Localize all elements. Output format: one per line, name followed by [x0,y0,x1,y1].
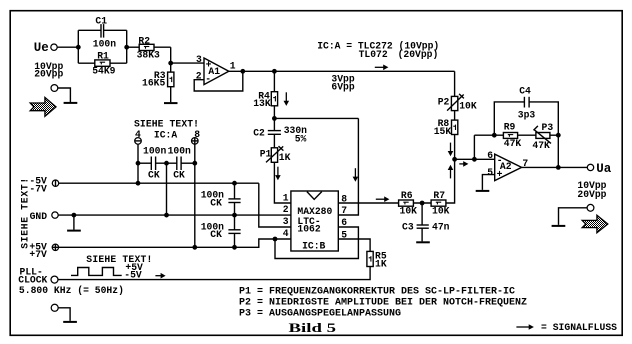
potentiometer P1 [260,146,291,163]
svg-text:GND: GND [30,211,48,222]
capacitor C4 [518,85,536,120]
wire node to A2 pin6 [474,158,494,160]
svg-text:10K: 10K [400,206,418,217]
ground clock probe [63,321,77,323]
ground input probe [64,102,78,104]
wire clock line to R5 [58,267,370,280]
node V+ leg / cap row junction [192,161,197,166]
legend signal flow arrow [516,324,534,330]
label = SIGNALFLUSS [541,322,617,333]
svg-text:A2: A2 [500,161,512,172]
svg-text:IC:A: IC:A [154,130,177,141]
label GND [30,211,48,222]
node R4/C2 junction [272,116,277,121]
node C1/R1 right junction [124,45,129,50]
wire feedback right leg down to output [557,135,559,167]
svg-text:Ua: Ua [596,162,612,176]
node clock probe terminal [51,304,70,321]
label -5V/-7V [29,176,47,195]
label PLL-CLOCK [18,266,47,285]
svg-text:15K: 15K [434,126,452,137]
node Ue input terminal [34,41,57,55]
svg-text:1: 1 [230,60,236,71]
wire C1 top branch [78,29,126,31]
resistor R3 [142,63,174,88]
resistor R7 [431,190,450,217]
wire node to A1 pin3 [171,62,204,64]
svg-text:C3: C3 [402,221,414,232]
clock square wave symbol [71,268,122,276]
svg-text:5.800 KHz (= 50Hz): 5.800 KHz (= 50Hz) [19,285,124,296]
wire A1 output junction down to R4 [273,71,275,91]
wire R7 up to A2 node [446,159,455,203]
ground output probe [552,225,566,227]
wire GND rail to MAX280 pin2 [58,214,291,216]
svg-text:6Vpp: 6Vpp [331,81,354,92]
terminal IC:A V- (circle with bar) [135,138,142,145]
svg-text:CK: CK [173,170,185,181]
svg-text:3: 3 [196,54,202,65]
ground A2 pin5 [476,190,490,192]
pin 8 label [341,193,347,204]
svg-text:+7V: +7V [29,249,47,260]
label IC:A type note [317,41,439,61]
label clock levels +5V/-5V [124,262,143,281]
potentiometer P3 [532,122,553,151]
signal flow output arrow (hatched) [582,215,608,233]
op-amp A2 [487,150,528,181]
svg-text:A1: A1 [208,66,220,77]
wire R4 to C2 node [273,106,275,131]
svg-text:16K5: 16K5 [142,77,165,88]
svg-text:54K9: 54K9 [92,66,115,77]
wire P1 to MAX280 pin1 [274,162,291,203]
svg-text:-7V: -7V [29,183,47,194]
capacitor C2 [253,125,307,144]
wire -5V rail [59,182,259,184]
wire A2 node to feedback node [455,158,475,160]
label SIEHE TEXT! (IC:A supply) [134,118,199,129]
svg-text:6: 6 [487,150,493,161]
signal flow input arrow (hatched) [30,97,56,116]
node GND rail / middle leg junction [164,213,169,218]
svg-text:38K3: 38K3 [137,50,160,61]
capacitor C1 [93,16,116,50]
label IC:A pin 8 [194,129,200,140]
potentiometer P2 [438,94,477,112]
svg-text:R7: R7 [433,190,445,201]
svg-text:TL072: TL072 [359,49,388,60]
label 100n CK (lower bypass) [201,221,224,240]
svg-text:20Vpp: 20Vpp [577,189,606,200]
svg-text:P3 = AUSGANGSPEGELANPASSUNG: P3 = AUSGANGSPEGELANPASSUNG [239,308,401,319]
ground below C3 [416,241,430,243]
node R4 branch junction [272,69,277,74]
wire A2 pin5 to ground [482,175,494,190]
node -5V rail / bypass column junction [232,181,237,186]
capacitor bypass upper (100n CK) [228,183,240,230]
node MAX280 pin4 junction [273,237,278,242]
svg-text:Ue: Ue [34,41,49,55]
svg-text:1K: 1K [279,152,291,163]
wire P2 to R8 [454,111,456,121]
svg-text:= SIGNALFLUSS: = SIGNALFLUSS [541,322,617,333]
node -5V rail / V- leg junction [136,181,141,186]
svg-text:5: 5 [487,167,493,178]
svg-text:47K: 47K [504,138,522,149]
wire R9/P3 feedback line [474,134,558,136]
label +5V/+7V [29,241,47,260]
wire middle leg to GND rail [166,163,168,215]
node input junction [76,45,81,50]
wire R2 to A1 input node [154,47,171,63]
terminal IC:A V+ (circle with cross) [192,138,199,145]
svg-text:3: 3 [283,216,289,227]
capacitor IC:A bypass left (100n CK) [138,157,160,181]
svg-text:CK: CK [148,170,160,181]
pin 3 label [283,216,289,227]
wire IC:A V- leg down to -5V rail [137,144,139,183]
pin 5 label [341,230,347,241]
wire pin4 node to pin6 detour [275,227,358,259]
svg-text:C4: C4 [519,85,531,96]
svg-text:100n: 100n [143,146,166,157]
terminal PLL clock [51,276,58,283]
wire C1/R1 right leg [126,30,128,63]
label output level 10Vpp/20Vpp [577,180,606,200]
wire A2 output to Ua [522,166,588,168]
node input probe terminal [51,85,70,102]
wire R4 node to MAX280 pin7 column [274,117,358,119]
svg-text:P2 = NIEDRIGSTE AMPLITUDE BEI: P2 = NIEDRIGSTE AMPLITUDE BEI DER NOTCH-… [239,297,527,308]
label SIEHE TEXT! (left vertical) [20,178,31,249]
wire feedback node up to R9 line [473,135,475,159]
svg-text:R2: R2 [138,35,150,46]
wire A1 feedback pin2 loop [194,71,243,91]
node V- leg / cap row junction [136,161,141,166]
node C4 branch left junction [492,133,497,138]
wire Ue to node [57,46,78,48]
node output probe terminal [559,204,594,224]
node GND rail / bypass column junction [232,213,237,218]
resistor R4 [253,91,277,109]
capacitor IC:A bypass right (100n CK) [173,157,195,181]
svg-text:SIEHE TEXT!: SIEHE TEXT! [134,118,199,129]
pin 1 label [283,192,289,203]
wire MAX280 pin7 column down [338,118,358,215]
label 100n 100n (IC:A caps) [143,146,191,157]
label IC:A pin 4 [135,129,141,140]
svg-text:4: 4 [283,228,289,239]
svg-text:IC:B: IC:B [302,241,325,252]
wire cap row middle [156,162,177,164]
signal flow down arrow beside R4 [284,92,290,106]
terminal +5V rail (circle with cross) [52,244,59,251]
wire A1 output corner down to P2 [454,71,456,96]
label input level 10Vpp/20Vpp [34,61,63,80]
node A2 inverting input junction [472,157,477,162]
ground below R3 [164,87,178,103]
signal flow down arrow on pin7 column [353,168,359,182]
resistor R2 [127,35,160,60]
signal flow arrow on clock line [155,273,165,279]
label 3Vpp/6Vpp [331,74,354,93]
svg-text:P3: P3 [542,122,554,133]
label clock frequency [19,285,124,296]
signal flow arrow on A1 output wire [375,65,389,71]
resistor R1 [78,51,126,77]
wire R5 to MAX280 pin5 [338,239,370,251]
wire C2 to P1 [273,134,275,148]
svg-text:13K: 13K [253,98,271,109]
wire C4 loop [494,102,558,135]
node +5V rail / V+ leg junction [192,245,197,250]
node C3 junction [420,201,425,206]
label Bild 5 title [289,320,337,335]
wire R8 down to A2 node [454,135,456,160]
wire -5V rail down to MAX280 pin3 [259,183,291,227]
svg-text:CLOCK: CLOCK [18,274,47,285]
op-amp A1 [196,54,236,85]
capacitor bypass lower (100n CK) [228,230,240,248]
wire MAX280 pin8 output to R6 [338,202,398,204]
resistor R8 [434,118,458,137]
terminal -5V rail (circle with vertical bar) [52,180,58,186]
svg-text:47K: 47K [532,140,550,151]
node A2 summing junction [452,157,457,162]
signal flow arrow on pin8 wire [376,196,390,202]
node C4 branch right junction [556,133,561,138]
pin 4 label [283,228,289,239]
node Ua output terminal [587,162,611,176]
pin 7 label [341,205,347,216]
node cap row middle junction [164,161,169,166]
svg-text:C2: C2 [253,127,265,138]
wire IC:A V+ leg down to +5V rail [194,144,196,247]
svg-text:100n: 100n [168,146,191,157]
svg-text:100n: 100n [93,39,116,50]
terminal GND rail [52,212,58,218]
node A1 feedback junction [240,69,245,74]
wire A1 output [229,70,455,72]
svg-text:R9: R9 [504,122,516,133]
svg-text:1062: 1062 [297,224,320,235]
svg-text:R1: R1 [97,51,109,62]
svg-text:10K: 10K [459,101,477,112]
svg-text:CK: CK [210,229,222,240]
svg-text:Bild 5: Bild 5 [289,320,337,335]
svg-text:-5V: -5V [124,270,142,281]
svg-text:P1: P1 [260,148,272,159]
label P1/P2/P3 notes [239,286,527,319]
node GND stub junction [72,213,77,218]
wire C1/R1 left leg [77,30,79,63]
wire R6 to R7 [413,202,431,204]
capacitor C3 [402,203,450,241]
svg-text:P1 = FREQUENZGANGKORREKTUR DES: P1 = FREQUENZGANGKORREKTUR DES SC-LP-FIL… [239,286,515,297]
svg-text:10K: 10K [432,206,450,217]
label IC:A [154,130,177,141]
signal flow down arrow below R8 [448,143,454,157]
label SIEHE TEXT! (clock) [86,254,152,265]
svg-text:P2: P2 [438,97,450,108]
svg-text:20Vpp: 20Vpp [34,69,63,80]
resistor R6 [399,190,418,217]
svg-text:(20Vpp): (20Vpp) [398,49,439,60]
svg-text:1K: 1K [375,258,387,269]
svg-text:7: 7 [341,205,347,216]
ground GND rail symbol [67,215,81,231]
IC U1 MAX280 / LTC-1062 IC:B [291,191,338,252]
svg-text:5%: 5% [295,134,307,145]
svg-text:CK: CK [210,197,222,208]
svg-text:47n: 47n [432,221,450,232]
resistor R9 [503,122,521,150]
wire +5V rail to MAX280 pin4 [59,239,291,247]
svg-text:C1: C1 [95,16,107,27]
label 100n CK (upper bypass) [201,190,224,209]
signal flow arrow toward A2 [459,161,468,167]
svg-text:3p3: 3p3 [518,109,536,120]
signal flow up arrow above R7 leg [448,165,454,179]
pin 6 label [341,217,347,228]
svg-text:R6: R6 [401,190,413,201]
svg-text:2: 2 [283,204,289,215]
svg-text:1: 1 [283,192,289,203]
node A2 output feedback junction [556,165,561,170]
signal flow down arrow below P1 [275,167,281,181]
node +5V rail / bypass column junction [232,245,237,250]
node A1 inverting input junction [168,61,173,66]
pin 2 label [283,204,289,215]
resistor R5 [367,250,387,269]
